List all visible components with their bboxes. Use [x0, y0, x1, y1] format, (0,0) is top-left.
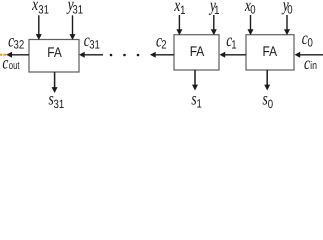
label x31 — [31, 0, 49, 16]
svg-text:31: 31 — [72, 2, 83, 16]
label y31 — [66, 0, 83, 16]
svg-text:32: 32 — [14, 38, 25, 52]
svg-text:FA: FA — [263, 43, 278, 59]
label x1 — [174, 0, 186, 17]
label c1 — [226, 30, 237, 51]
svg-text:FA: FA — [190, 43, 205, 59]
wire sum s0 output — [264, 70, 270, 91]
svg-text:0: 0 — [308, 36, 314, 50]
svg-text:s: s — [263, 89, 268, 109]
ellipsis dots node — [110, 54, 140, 57]
svg-text:in: in — [310, 60, 317, 72]
wire carry c1 into FA1 — [220, 52, 247, 58]
wire carry-in c0 into FA0 — [295, 52, 323, 58]
label c31 — [84, 30, 100, 52]
wire carry c31 into FA31 — [79, 52, 103, 58]
svg-text:2: 2 — [161, 37, 167, 51]
svg-text:0: 0 — [268, 97, 274, 111]
wire sum s1 output — [192, 70, 198, 91]
label s31 — [49, 89, 65, 111]
wire x31 input — [36, 15, 42, 40]
label x0 — [244, 0, 256, 16]
label y1 — [208, 0, 219, 17]
svg-text:31: 31 — [89, 38, 100, 52]
svg-text:1: 1 — [231, 37, 237, 51]
wire y0 input — [284, 15, 290, 35]
label c32 — [8, 31, 24, 52]
svg-text:31: 31 — [38, 2, 49, 16]
label y0 — [281, 0, 293, 16]
full adder U1 (FA, bit 1) — [174, 35, 219, 70]
svg-text:x: x — [174, 0, 181, 15]
label s0 — [263, 89, 274, 111]
wire carry c2 out of FA1 — [150, 52, 174, 58]
wire carry-out c32 to cout (orange highlight dashes at edge) — [0, 52, 29, 58]
label c2 — [156, 30, 167, 51]
svg-text:0: 0 — [250, 2, 256, 16]
svg-text:FA: FA — [47, 44, 62, 60]
svg-text:31: 31 — [54, 97, 65, 111]
svg-text:0: 0 — [287, 2, 293, 16]
svg-text:c: c — [304, 53, 310, 73]
svg-text:out: out — [9, 60, 20, 72]
full adder U31 (FA, bit 31) — [29, 40, 79, 73]
svg-text:1: 1 — [214, 3, 220, 17]
svg-text:x: x — [31, 0, 38, 14]
svg-text:1: 1 — [180, 3, 186, 17]
wire sum s31 output — [52, 72, 58, 93]
label cout — [2, 53, 19, 73]
label c0 — [302, 28, 313, 50]
wire x1 input — [176, 15, 182, 35]
wire y31 input — [70, 15, 76, 40]
svg-text:c: c — [2, 53, 8, 73]
full adder U0 (FA, bit 0) — [246, 35, 294, 70]
svg-text:1: 1 — [197, 97, 203, 111]
label cin — [304, 53, 317, 73]
wire y1 input — [211, 15, 217, 35]
label s1 — [191, 89, 202, 111]
wire x0 input — [248, 15, 254, 35]
